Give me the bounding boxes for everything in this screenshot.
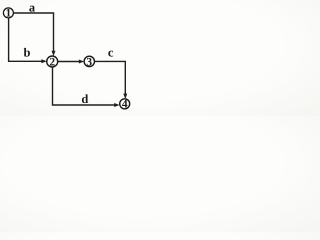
label b	[24, 46, 31, 60]
wire a (node1 right, then down into node2)	[13, 13, 55, 56]
svg-text:c: c	[108, 46, 114, 60]
svg-text:2: 2	[49, 57, 55, 69]
svg-text:1: 1	[6, 8, 12, 20]
svg-text:a: a	[29, 1, 36, 15]
svg-text:3: 3	[86, 56, 92, 68]
label c	[108, 46, 114, 60]
svg-text:4: 4	[122, 99, 128, 111]
svg-text:b: b	[24, 46, 31, 60]
wire node2 to node3	[58, 60, 85, 64]
label a	[29, 1, 36, 15]
node 3	[84, 56, 94, 68]
wire b (node1 down, then right into node2)	[9, 17, 47, 63]
wire c (node3 right, then down into node4)	[94, 61, 127, 99]
node 2	[47, 56, 58, 69]
wire d (node2 down, then right into node4)	[53, 67, 120, 107]
node 1	[3, 8, 13, 20]
node 4	[120, 99, 130, 111]
label d	[81, 92, 88, 106]
svg-text:d: d	[81, 92, 88, 106]
